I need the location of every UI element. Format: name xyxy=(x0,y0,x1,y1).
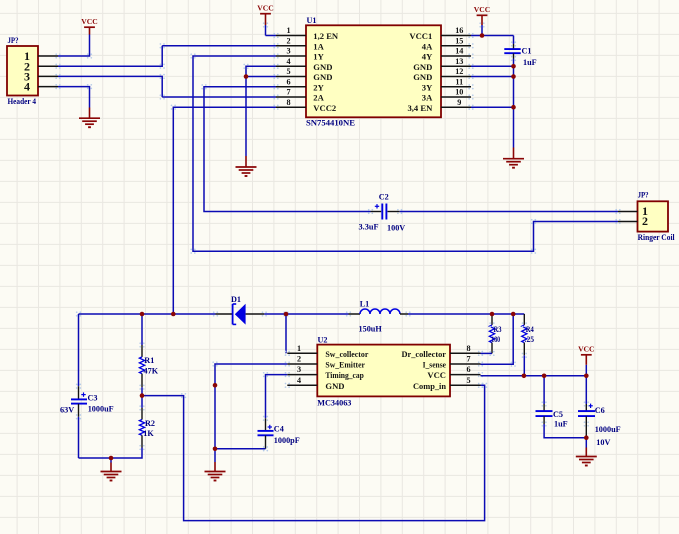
svg-text:D1: D1 xyxy=(231,295,241,304)
svg-text:GND: GND xyxy=(413,62,432,72)
svg-text:GND: GND xyxy=(413,72,432,82)
svg-text:VCC2: VCC2 xyxy=(313,103,336,113)
svg-text:5: 5 xyxy=(467,376,471,385)
svg-text:GND: GND xyxy=(313,62,332,72)
svg-text:C2: C2 xyxy=(379,193,389,202)
svg-text:150uH: 150uH xyxy=(359,325,383,334)
svg-text:2Y: 2Y xyxy=(313,82,324,92)
svg-text:7: 7 xyxy=(286,88,290,97)
svg-text:Comp_in: Comp_in xyxy=(413,381,446,391)
svg-text:1: 1 xyxy=(286,26,290,35)
svg-text:1Y: 1Y xyxy=(313,52,324,62)
svg-text:7: 7 xyxy=(467,355,471,364)
svg-text:Sw_Emitter: Sw_Emitter xyxy=(325,360,365,370)
svg-text:SN754410NE: SN754410NE xyxy=(306,119,356,128)
svg-text:4A: 4A xyxy=(422,41,433,51)
svg-text:47K: 47K xyxy=(144,367,159,376)
svg-text:8: 8 xyxy=(286,98,290,107)
svg-text:VCC: VCC xyxy=(578,345,594,354)
svg-text:180: 180 xyxy=(491,335,500,344)
svg-text:1: 1 xyxy=(297,344,301,353)
svg-text:3.3uF: 3.3uF xyxy=(359,222,379,231)
svg-text:C1: C1 xyxy=(522,47,532,56)
svg-text:C5: C5 xyxy=(553,410,563,419)
svg-text:63V: 63V xyxy=(60,406,74,415)
svg-text:9: 9 xyxy=(457,98,461,107)
svg-text:R2: R2 xyxy=(145,419,155,428)
svg-text:R1: R1 xyxy=(144,356,154,365)
svg-text:2: 2 xyxy=(297,355,301,364)
svg-text:Sw_collector: Sw_collector xyxy=(325,349,368,359)
svg-text:U2: U2 xyxy=(318,335,328,344)
svg-text:Header 4: Header 4 xyxy=(8,97,37,106)
svg-text:C3: C3 xyxy=(88,393,98,402)
svg-text:VCC: VCC xyxy=(474,5,490,14)
svg-text:VCC1: VCC1 xyxy=(409,31,432,41)
svg-text:C6: C6 xyxy=(595,406,605,415)
svg-text:JP?: JP? xyxy=(8,36,19,45)
svg-text:10V: 10V xyxy=(596,438,610,447)
svg-text:6: 6 xyxy=(286,77,290,86)
svg-text:1000uF: 1000uF xyxy=(595,425,621,434)
svg-text:U1: U1 xyxy=(307,16,317,25)
svg-text:GND: GND xyxy=(325,381,344,391)
svg-text:2: 2 xyxy=(642,214,648,228)
svg-text:MC34063: MC34063 xyxy=(317,399,351,408)
svg-text:.25: .25 xyxy=(525,335,534,344)
svg-text:1K: 1K xyxy=(143,429,154,438)
svg-text:12: 12 xyxy=(455,67,463,76)
svg-text:C4: C4 xyxy=(274,425,284,434)
svg-text:GND: GND xyxy=(313,72,332,82)
svg-text:I_sense: I_sense xyxy=(423,360,447,370)
svg-text:3A: 3A xyxy=(422,93,433,103)
svg-text:5: 5 xyxy=(286,67,290,76)
svg-text:Ringer Coil: Ringer Coil xyxy=(638,233,676,242)
svg-text:VCC: VCC xyxy=(257,4,273,13)
svg-text:4: 4 xyxy=(297,376,301,385)
svg-text:R3: R3 xyxy=(494,325,502,334)
svg-text:3,4 EN: 3,4 EN xyxy=(407,103,433,113)
svg-text:1,2 EN: 1,2 EN xyxy=(313,31,339,41)
svg-text:L1: L1 xyxy=(360,300,370,309)
svg-text:4: 4 xyxy=(24,80,30,94)
svg-text:3Y: 3Y xyxy=(422,82,433,92)
svg-text:14: 14 xyxy=(455,47,463,56)
svg-text:11: 11 xyxy=(455,77,463,86)
svg-text:13: 13 xyxy=(455,57,463,66)
svg-text:1A: 1A xyxy=(313,41,324,51)
svg-text:8: 8 xyxy=(467,344,471,353)
svg-text:Timing_cap: Timing_cap xyxy=(325,370,364,380)
svg-text:10: 10 xyxy=(455,88,463,97)
svg-text:1uF: 1uF xyxy=(554,420,568,429)
svg-text:VCC: VCC xyxy=(81,17,97,26)
svg-text:4: 4 xyxy=(286,57,290,66)
svg-text:100V: 100V xyxy=(387,223,405,232)
svg-text:4Y: 4Y xyxy=(422,52,433,62)
svg-text:3: 3 xyxy=(286,47,290,56)
svg-text:R4: R4 xyxy=(526,325,534,334)
svg-text:2: 2 xyxy=(286,36,290,45)
svg-text:JP?: JP? xyxy=(638,191,649,200)
svg-text:15: 15 xyxy=(455,36,463,45)
svg-text:1000pF: 1000pF xyxy=(274,436,300,445)
svg-text:Dr_collector: Dr_collector xyxy=(402,349,447,359)
svg-text:VCC: VCC xyxy=(427,370,446,380)
svg-text:16: 16 xyxy=(455,26,463,35)
svg-text:1000uF: 1000uF xyxy=(88,405,114,414)
svg-text:2A: 2A xyxy=(313,93,324,103)
svg-text:1uF: 1uF xyxy=(523,58,537,67)
svg-text:3: 3 xyxy=(297,365,301,374)
svg-text:6: 6 xyxy=(467,365,471,374)
